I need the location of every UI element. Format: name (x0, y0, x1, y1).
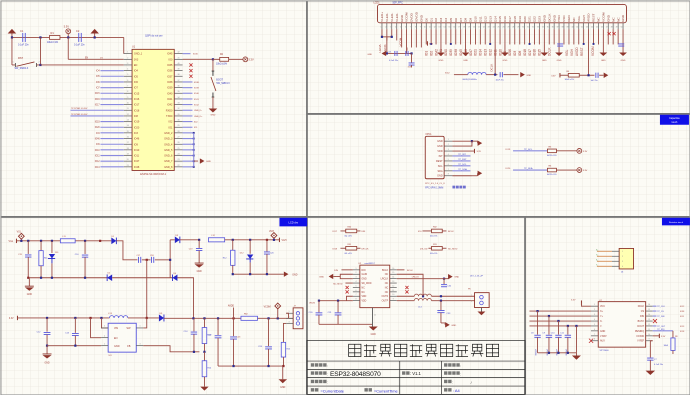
svg-text:VLED-: VLED- (390, 13, 394, 22)
svg-text:LCD drv: LCD drv (288, 221, 298, 225)
svg-text:6: 6 (594, 329, 595, 331)
inductor L12 (208, 238, 224, 242)
LCD1 pin 17 (460, 23, 462, 29)
svg-text:11: 11 (648, 329, 650, 331)
svg-text:REST: REST (592, 13, 596, 21)
LCD1 pin 33 (538, 23, 540, 29)
svg-text:39: 39 (177, 69, 179, 71)
svg-text:D0: D0 (424, 18, 428, 22)
svg-text:TXD0: TXD0 (166, 115, 173, 118)
capacitor C24b (268, 318, 270, 346)
svg-text:2: 2 (355, 272, 356, 274)
svg-text:31: 31 (527, 27, 529, 29)
svg-text:600Ω@100MHz: 600Ω@100MHz (462, 79, 476, 81)
svg-text:=CurrentTime: =CurrentTime (374, 388, 398, 393)
svg-text:GND: GND (601, 60, 606, 62)
svg-text:IO38: IO38 (194, 82, 200, 84)
svg-text:VGL: VGL (577, 15, 581, 21)
svg-text:36: 36 (552, 27, 554, 29)
svg-text:GND: GND (600, 330, 606, 333)
svg-text:6: 6 (355, 290, 356, 292)
svg-text::: : (327, 364, 328, 368)
svg-text:VLED-: VLED- (385, 13, 389, 22)
wire FB divider (143, 346, 199, 352)
capacitor C2 (78, 33, 80, 42)
svg-text:IO1: IO1 (424, 51, 428, 56)
svg-text:VDD: VDD (437, 150, 442, 153)
svg-text:4: 4 (594, 319, 595, 321)
LCD1 pin 4 (396, 23, 398, 29)
resistor R12 vertical (232, 240, 234, 250)
svg-text:ESP32-8048S070: ESP32-8048S070 (330, 371, 381, 378)
svg-text:GND: GND (400, 14, 404, 22)
svg-text:31: 31 (177, 114, 179, 116)
svg-text:BCLK: BCLK (407, 270, 413, 272)
svg-text:3: 3 (139, 343, 140, 345)
LCD1 pin 16 (455, 23, 457, 29)
diode D3 (170, 239, 175, 241)
no connect AUX (589, 339, 593, 343)
svg-text:10kΩ ±1%: 10kΩ ±1% (47, 41, 59, 44)
LCD1 pin 29 (519, 23, 521, 29)
svg-text:2: 2 (38, 61, 39, 63)
title block frame (307, 340, 525, 394)
wires GND GAIN (340, 274, 353, 278)
ground boost input (46, 345, 48, 347)
svg-text:XPT2046: XPT2046 (599, 350, 609, 352)
svg-text:NC: NC (597, 17, 601, 22)
no connect BUSY (653, 319, 657, 323)
resistor R2 (213, 58, 220, 60)
svg-text:JST_1.25_2P: JST_1.25_2P (470, 275, 484, 277)
svg-text:GND_7: GND_7 (164, 160, 173, 163)
svg-text:GND: GND (621, 60, 626, 62)
svg-text:GND: GND (503, 60, 508, 62)
svg-text:3.3V: 3.3V (661, 336, 666, 338)
svg-text:25: 25 (498, 27, 500, 29)
LCD1 pin 9 (420, 23, 422, 29)
svg-text:14: 14 (648, 314, 650, 316)
capacitor under pin 49 (618, 43, 624, 45)
LCD1 pin 40 (573, 23, 575, 29)
svg-text:D12: D12 (483, 16, 487, 22)
U7 IOVDD row (653, 335, 660, 337)
svg-text:ESP32-S3-WROOM-1: ESP32-S3-WROOM-1 (140, 172, 166, 176)
svg-text:0.1uF 20v: 0.1uF 20v (654, 364, 663, 366)
svg-text:13: 13 (439, 27, 441, 29)
svg-text:IO19: IO19 (95, 122, 101, 124)
svg-text:15: 15 (127, 131, 129, 133)
svg-text:10: 10 (424, 27, 426, 29)
svg-text:SDA: SDA (438, 170, 443, 173)
svg-text:9: 9 (127, 97, 128, 99)
svg-text:7: 7 (594, 334, 595, 336)
svg-text:1: 1 (594, 304, 595, 306)
LCD1 pin 19 (470, 23, 472, 29)
svg-text:1: 1 (448, 139, 449, 141)
LCD1 pin 18 (465, 23, 467, 29)
svg-text:D6: D6 (454, 18, 458, 22)
svg-text:GND: GND (27, 294, 32, 296)
svg-text:IO45: IO45 (193, 54, 199, 56)
wire OUTP (397, 300, 415, 302)
svg-text:IO21: IO21 (474, 49, 478, 56)
svg-text:14: 14 (392, 277, 394, 279)
svg-text:24: 24 (493, 27, 495, 29)
title row file name (444, 363, 447, 366)
svg-text:RXD0: RXD0 (166, 109, 173, 112)
svg-text:41: 41 (576, 27, 578, 29)
wire SW drop (146, 260, 148, 318)
svg-text:GND: GND (292, 274, 297, 276)
svg-text:1: 1 (139, 326, 140, 328)
svg-text:BCLK: BCLK (382, 270, 389, 272)
LCD1 pin 13 (440, 23, 442, 29)
svg-text:USB_D-: USB_D- (194, 110, 202, 112)
title row page (444, 380, 447, 383)
svg-text:15: 15 (448, 27, 450, 29)
svg-text:49: 49 (616, 27, 618, 29)
LCD1 pin 35 (548, 23, 550, 29)
svg-text:D5: D5 (449, 18, 453, 22)
svg-text:RST: RST (18, 56, 24, 60)
svg-text:IO11: IO11 (134, 155, 140, 158)
power port 3V3 left (11, 33, 13, 37)
svg-text:37: 37 (177, 80, 179, 82)
svg-text:D11: D11 (479, 16, 483, 22)
svg-text:7: 7 (448, 169, 449, 171)
svg-text:27: 27 (507, 27, 509, 29)
inductor L15 (414, 299, 431, 301)
capacitor C12 (46, 318, 48, 332)
svg-text:DOUT: DOUT (637, 325, 644, 328)
svg-text:1: 1 (12, 61, 13, 63)
ground C19 (195, 262, 204, 264)
diode D1 (111, 238, 116, 245)
svg-text:1%: 1% (100, 57, 103, 59)
svg-text:6: 6 (448, 164, 449, 166)
svg-text:D3: D3 (439, 18, 443, 22)
svg-text:2: 2 (127, 57, 128, 59)
svg-text:3.3V: 3.3V (583, 151, 588, 153)
svg-text:GND_3: GND_3 (164, 138, 173, 141)
net label VGH (278, 238, 280, 242)
capacitor C21 (394, 51, 396, 56)
svg-text:26: 26 (177, 142, 179, 144)
svg-text::: : (327, 372, 328, 376)
svg-text:GND: GND (451, 325, 456, 327)
svg-text:10: 10 (648, 334, 650, 336)
svg-text:IO16: IO16 (95, 99, 101, 101)
svg-text:IO11: IO11 (493, 49, 497, 56)
LCD1 pin 26 (504, 23, 506, 29)
svg-text:26: 26 (503, 27, 505, 29)
power port 3.3V R6 (577, 168, 582, 173)
resistor R5 (547, 149, 556, 153)
svg-text:TP_OUT: TP_OUT (657, 326, 666, 328)
zener diode D11 (51, 241, 53, 253)
svg-text:3: 3 (594, 314, 595, 316)
bottom rail VGL (28, 277, 107, 279)
svg-text:12: 12 (648, 324, 650, 326)
svg-text:AUX: AUX (600, 340, 605, 343)
svg-text:3.3V: 3.3V (429, 43, 434, 45)
svg-text:4: 4 (355, 281, 356, 283)
wire boost GND rail (47, 345, 101, 347)
capacitor C23 (233, 318, 235, 336)
svg-text:8: 8 (448, 174, 449, 176)
resistor R15 (283, 323, 286, 342)
svg-text:IO39: IO39 (449, 49, 453, 56)
svg-text:D19: D19 (518, 16, 522, 22)
svg-text:QSPI do not use: QSPI do not use (145, 34, 163, 37)
wire BCLK out (397, 269, 405, 271)
svg-text:SD_MOD: SD_MOD (333, 283, 343, 285)
svg-text:D8: D8 (464, 18, 468, 22)
svg-text:3: 3 (622, 261, 623, 263)
svg-text:REST: REST (580, 47, 584, 56)
right net labels (183, 81, 193, 83)
company name text (349, 344, 361, 356)
title row product name (311, 363, 314, 366)
svg-text:43: 43 (586, 27, 588, 29)
svg-text:IO13: IO13 (483, 49, 487, 56)
svg-text:35: 35 (177, 91, 179, 93)
svg-text:TP_RST: TP_RST (458, 159, 467, 161)
wire VGL rail (16, 240, 111, 242)
LCD1 pin 24 (494, 23, 496, 29)
svg-text:18: 18 (463, 27, 465, 29)
svg-text:DIN: DIN (361, 231, 365, 233)
capacitor C31 (337, 301, 339, 313)
capacitor under pin 36 (557, 43, 563, 45)
svg-text:3: 3 (288, 321, 289, 323)
svg-text:IO16: IO16 (134, 98, 140, 101)
capacitor C8 (537, 311, 539, 335)
LCD1 pin 1 (381, 23, 383, 29)
bottom rail VGH (233, 273, 284, 275)
svg-text:VCOM: VCOM (264, 307, 271, 309)
wire output rail AVDD (164, 317, 293, 319)
capacitor C16 (84, 241, 86, 254)
ground at BOOT (212, 97, 214, 108)
svg-text:4: 4 (127, 69, 128, 71)
sheet tab Capacitive touch (660, 115, 689, 125)
svg-text:3.3V: 3.3V (551, 75, 556, 77)
svg-text:9000pF: 9000pF (536, 348, 538, 355)
svg-text:5: 5 (400, 27, 401, 29)
svg-text:GND: GND (437, 145, 443, 148)
U7 DOUT row (653, 325, 657, 327)
svg-text:C2: C2 (76, 29, 80, 33)
svg-text:DCLK: DCLK (489, 64, 493, 72)
svg-text:D15: D15 (498, 16, 502, 22)
svg-text:D1: D1 (429, 18, 433, 22)
svg-text:4: 4 (622, 266, 623, 268)
svg-text:GND_1: GND_1 (134, 53, 143, 56)
svg-text:12: 12 (392, 285, 394, 287)
svg-text:TP_CLK: TP_CLK (657, 306, 665, 308)
svg-text:14: 14 (127, 125, 129, 127)
svg-text:5: 5 (594, 324, 595, 326)
LCD1 pin 27 (509, 23, 511, 29)
svg-text:21: 21 (478, 27, 480, 29)
svg-text:5: 5 (355, 285, 356, 287)
LCD1 pin 5 (401, 23, 403, 29)
svg-text:18: 18 (127, 148, 129, 150)
svg-text:NC: NC (361, 287, 365, 289)
resistor R8 (672, 331, 674, 338)
svg-text:IO41: IO41 (167, 98, 173, 101)
U7 DCLK row (653, 305, 657, 307)
ESP32 right side wires (183, 53, 191, 55)
svg-text:VDD: VDD (361, 296, 366, 298)
svg-text:BOOT: BOOT (216, 79, 223, 82)
svg-text:EN: EN (114, 337, 118, 340)
svg-text:IO46: IO46 (134, 138, 140, 141)
svg-text:NC: NC (572, 17, 576, 22)
svg-text:21: 21 (127, 165, 129, 167)
svg-text:D17: D17 (508, 16, 512, 22)
svg-text:LRCLK: LRCLK (412, 276, 420, 278)
svg-text:8: 8 (594, 339, 595, 341)
svg-text:NC: NC (611, 17, 615, 22)
LCD1 pin 39 (568, 23, 570, 29)
wire EN net (39, 37, 41, 64)
LCD1 pin 8 (415, 23, 417, 29)
svg-text:23: 23 (177, 159, 179, 161)
svg-text:REST: REST (436, 160, 443, 163)
resistor R13 (203, 318, 205, 327)
svg-text:IO10: IO10 (134, 149, 140, 152)
capacitor C20 (266, 240, 268, 252)
wire VDD 3.3V (452, 150, 474, 152)
svg-text:NC: NC (361, 292, 365, 294)
svg-text:30: 30 (177, 120, 179, 122)
wire VREF (650, 341, 652, 358)
LCD1 pin 36 (553, 23, 555, 29)
svg-text:23: 23 (488, 27, 490, 29)
LCD pin wires comb (381, 29, 383, 37)
capacitor C33 (440, 301, 442, 310)
LCD1 pin 2 (386, 23, 388, 29)
power port 3.3V R5 (577, 148, 582, 153)
resistor R6 (547, 168, 556, 172)
svg-text:VIN: VIN (114, 327, 118, 330)
svg-text::: : (460, 372, 461, 376)
capacitor C1 (22, 33, 24, 42)
svg-text:35: 35 (547, 27, 549, 29)
svg-text:GND: GND (543, 14, 547, 22)
svg-text:3: 3 (127, 63, 128, 65)
svg-text:50P_FPC: 50P_FPC (392, 1, 403, 4)
svg-text:40: 40 (571, 27, 573, 29)
svg-text:38: 38 (177, 74, 179, 76)
svg-text:VGL: VGL (565, 49, 569, 56)
svg-text:GND: GND (437, 140, 443, 143)
svg-text:FPC 6PIN 1.0MM: FPC 6PIN 1.0MM (425, 188, 443, 190)
LCD1 pin 37 (558, 23, 560, 29)
svg-text:13: 13 (392, 281, 394, 283)
diode D2 (107, 274, 112, 281)
LCD1 pin 22 (484, 23, 486, 29)
title row sheet size (444, 388, 447, 391)
svg-text:0Ω ±5%: 0Ω ±5% (344, 253, 352, 255)
title row file number (444, 371, 447, 374)
svg-text:10: 10 (127, 103, 129, 105)
svg-text:5: 5 (127, 74, 128, 76)
svg-text:11: 11 (392, 290, 394, 292)
LCD1 pin 34 (543, 23, 545, 29)
capacitor C24 (499, 72, 501, 77)
power port 3.3V (67, 33, 69, 37)
svg-text:IO16: IO16 (533, 49, 537, 56)
svg-text:IO3: IO3 (134, 132, 139, 135)
svg-text:IO17: IO17 (528, 49, 532, 56)
svg-text:IO38: IO38 (167, 81, 173, 84)
svg-text:IO10: IO10 (498, 49, 502, 56)
svg-text:29: 29 (517, 27, 519, 29)
svg-text:IO13: IO13 (95, 167, 101, 169)
svg-text:SW_SMD4.3: SW_SMD4.3 (216, 83, 230, 85)
svg-text:I2S_SD: I2S_SD (420, 248, 428, 250)
svg-text:LEDA: LEDA (378, 43, 382, 52)
capacitor C32 (443, 279, 445, 284)
U7 DIN row (653, 315, 657, 317)
touch wires Y+ (529, 315, 591, 317)
svg-text:3.3V: 3.3V (248, 57, 254, 61)
wire pin15 (397, 274, 423, 296)
svg-text:X-: X- (600, 320, 603, 323)
svg-text:OUTP: OUTP (382, 301, 389, 303)
svg-text:NC: NC (385, 274, 389, 276)
svg-text:D4: D4 (444, 18, 448, 22)
wire TP_RST (452, 160, 470, 162)
capacitor C22 (217, 318, 219, 335)
svg-text:GND: GND (606, 14, 610, 22)
svg-text:GND: GND (557, 60, 562, 62)
LCD1 pin 28 (514, 23, 516, 29)
svg-text:D10: D10 (474, 16, 478, 22)
svg-text:4: 4 (395, 27, 396, 29)
no connect U2 right (405, 286, 408, 289)
svg-text:IO40: IO40 (167, 92, 173, 95)
svg-text:10kΩ: 10kΩ (663, 345, 668, 347)
svg-text:D20: D20 (523, 16, 527, 22)
svg-text:DIN: DIN (334, 270, 338, 272)
svg-text:Y-: Y- (600, 325, 602, 328)
svg-text:GND: GND (420, 14, 424, 22)
svg-text:TP_SDA: TP_SDA (524, 167, 533, 170)
svg-text:50: 50 (621, 27, 623, 29)
svg-text:GND: GND (371, 334, 376, 336)
svg-text:SD_MOD: SD_MOD (361, 283, 371, 285)
svg-text:IO18: IO18 (134, 109, 140, 112)
svg-text:3: 3 (390, 27, 391, 29)
svg-text:1: 1 (471, 301, 472, 303)
svg-text:GND: GND (197, 271, 202, 273)
svg-text:IO4: IO4 (134, 70, 139, 73)
svg-text:15: 15 (648, 309, 650, 311)
svg-text:11: 11 (127, 108, 129, 110)
svg-text:16: 16 (127, 137, 129, 139)
svg-text:3.3V: 3.3V (9, 318, 14, 320)
resistor R4 (568, 73, 579, 77)
svg-text:DIN: DIN (361, 270, 365, 272)
svg-text:D16: D16 (503, 16, 507, 22)
wire FPC1 GND pins (452, 140, 472, 142)
LCD1 pin 3 (391, 23, 393, 29)
